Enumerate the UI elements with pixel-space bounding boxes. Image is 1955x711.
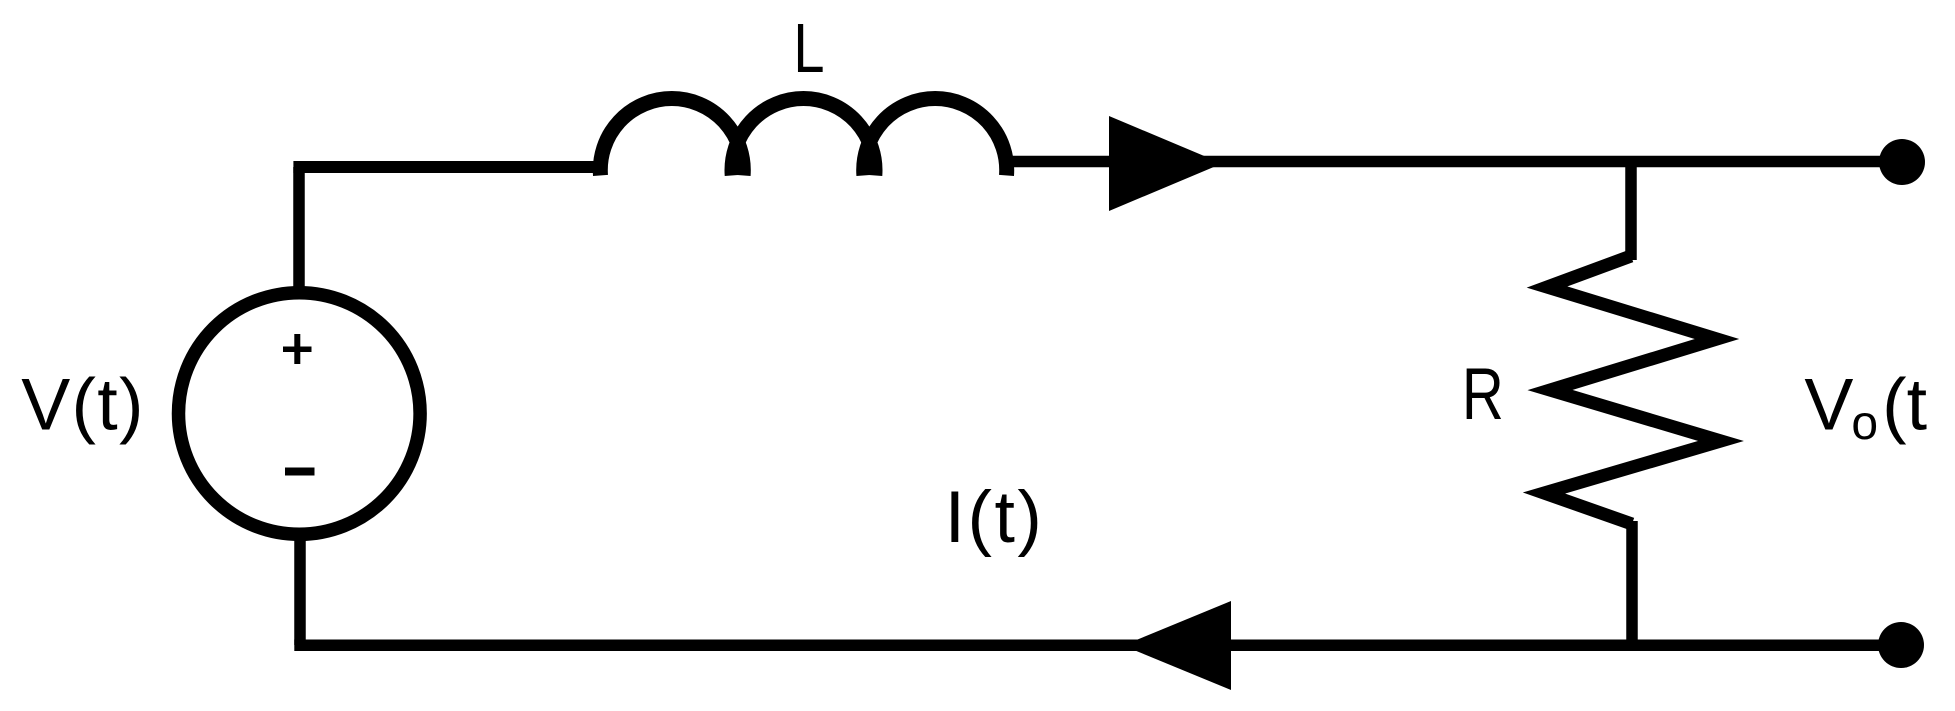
node terminal bottom dot xyxy=(1878,622,1924,668)
arrow current direction top xyxy=(1109,116,1222,211)
wire top-left stem xyxy=(293,167,305,287)
wire resistor stub bottom xyxy=(1626,521,1638,645)
minus sign xyxy=(285,468,315,476)
wire bottom horizontal xyxy=(294,640,1902,652)
svg-text:R: R xyxy=(1462,354,1504,436)
svg-text:Vo(t: Vo(t xyxy=(1804,363,1927,451)
svg-text:I(t): I(t) xyxy=(945,475,1045,558)
wire resistor stub top xyxy=(1625,156,1637,260)
svg-text:L: L xyxy=(793,10,824,87)
node terminal top dot xyxy=(1879,139,1925,185)
wire top-left horizontal xyxy=(293,161,600,173)
resistor R xyxy=(1544,256,1721,524)
wire bottom-left stem xyxy=(294,530,306,645)
svg-text:V(t): V(t) xyxy=(21,363,145,446)
wire top-right horizontal xyxy=(1005,156,1902,168)
inductor L xyxy=(600,99,1006,176)
plus sign xyxy=(283,334,312,364)
voltage source V(t) xyxy=(178,293,420,535)
arrow current direction bottom xyxy=(1123,601,1231,690)
